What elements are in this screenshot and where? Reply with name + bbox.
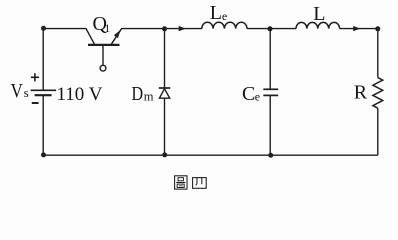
wire top rail: L inductor to right corner node bbox=[340, 28, 378, 30]
node: bottom left junction bbox=[41, 152, 46, 157]
node: top left junction bbox=[41, 26, 46, 31]
svg-text:C: C bbox=[242, 83, 255, 105]
wire right branch lower: resistor to bottom right corner bbox=[377, 108, 379, 155]
wire bottom rail bbox=[43, 154, 378, 156]
node: Ce top junction bbox=[268, 26, 273, 31]
caption glyph 圖 (figure) bbox=[175, 176, 187, 189]
wire left branch upper: node to battery top plate bbox=[42, 29, 44, 91]
transistor Q1 emitter with arrow bbox=[111, 29, 121, 44]
wire right branch upper: top right node to resistor bbox=[377, 29, 379, 78]
diode Dm triangle (anode) bbox=[159, 89, 169, 99]
diode Dm cathode bar bbox=[159, 87, 171, 89]
svg-text:L: L bbox=[313, 3, 325, 25]
inductor Le humps bbox=[202, 22, 247, 28]
node: Dm top junction bbox=[162, 26, 167, 31]
battery plus sign bbox=[31, 73, 39, 81]
battery minus sign bbox=[32, 102, 39, 104]
capacitor Ce bottom plate bbox=[263, 94, 278, 96]
wire top rail: source node to transistor collector bbox=[44, 29, 95, 45]
svg-text:e: e bbox=[255, 89, 260, 103]
node: Dm bottom junction bbox=[162, 152, 167, 157]
node: Ce bottom junction bbox=[268, 153, 273, 158]
node: top right junction bbox=[375, 26, 380, 31]
wire Ce branch lower: capacitor plate to bottom rail bbox=[269, 95, 271, 155]
wire top rail: Le inductor to Ce node bbox=[247, 28, 270, 30]
capacitor Ce top plate bbox=[263, 88, 278, 90]
transistor Q1 base lead bbox=[102, 46, 104, 65]
battery Vs bottom plate (short) bbox=[35, 94, 52, 96]
wire Dm branch upper: top node to diode cathode bbox=[164, 29, 166, 88]
wire top rail: Dm node to Le inductor bbox=[165, 28, 203, 30]
transistor Q1 base bar bbox=[88, 44, 120, 46]
svg-text:e: e bbox=[222, 9, 227, 23]
svg-text:1: 1 bbox=[104, 21, 110, 35]
caption glyph 四 (four) bbox=[193, 178, 207, 189]
current arrow after inductor L bbox=[353, 26, 360, 31]
svg-text:D: D bbox=[132, 83, 144, 105]
wire Dm branch lower: diode anode to bottom rail bbox=[164, 98, 166, 155]
battery Vs top plate (long) bbox=[31, 89, 56, 91]
inductor L humps bbox=[296, 22, 340, 28]
wire Ce branch upper: top node to capacitor plate bbox=[269, 29, 271, 90]
svg-text:s: s bbox=[24, 85, 29, 100]
wire left branch lower: battery bottom plate to bottom rail bbox=[42, 95, 44, 155]
svg-text:110 V: 110 V bbox=[57, 84, 103, 105]
current arrow after Dm node bbox=[179, 26, 186, 31]
svg-text:L: L bbox=[210, 2, 222, 24]
wire top rail: Ce node to L inductor bbox=[270, 28, 296, 30]
transistor Q1 base terminal circle bbox=[100, 65, 106, 71]
svg-text:R: R bbox=[354, 82, 368, 104]
svg-text:V: V bbox=[11, 80, 24, 102]
resistor R zigzag bbox=[373, 78, 383, 109]
wire top rail: transistor emitter to Dm node bbox=[121, 28, 165, 30]
svg-text:m: m bbox=[144, 90, 154, 104]
